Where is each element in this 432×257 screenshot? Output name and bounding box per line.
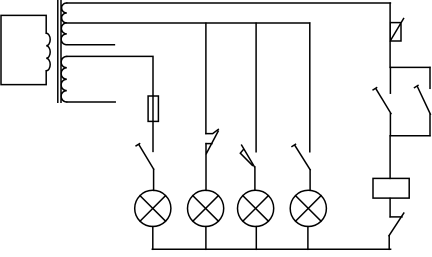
limit switch S3	[242, 145, 255, 167]
wire: lower rail of contact pair	[390, 135, 430, 137]
transformer T1 bottom secondary winding	[61, 56, 67, 102]
transformer T1 primary box	[1, 15, 46, 84]
wire: S2 to lamp E2	[205, 144, 207, 191]
contact K1b (right)	[429, 67, 431, 88]
transformer T1 core	[58, 1, 61, 103]
wire: lamp E4 to bottom rail	[307, 227, 309, 250]
switch S4	[295, 145, 310, 170]
wire: branch 2 drop	[205, 23, 207, 134]
wire: S4 to lamp E4	[309, 170, 311, 190]
wire: rail A (top)	[67, 2, 391, 4]
relay coil K1	[373, 178, 409, 198]
wire: lead D to fuse branch	[67, 56, 153, 96]
wire: S3 to lamp E3	[254, 167, 256, 190]
wire: upper rail of contact pair	[390, 66, 430, 68]
wire: lamp E1 to bottom rail	[152, 227, 154, 250]
wire: right feeder from rail A	[389, 3, 391, 67]
lamp E3	[238, 190, 274, 226]
wire: stub C (unused tap)	[67, 44, 115, 46]
wire: S5 to bottom rail	[388, 236, 390, 250]
transformer T1 primary winding bumps	[46, 33, 50, 71]
lamp E4	[290, 190, 326, 226]
contact K1a (left)	[389, 67, 391, 93]
contact S2 (changeover)	[206, 129, 218, 133]
wire: rail B (second)	[67, 22, 310, 24]
wire: stub E (unused tap)	[67, 101, 115, 103]
transformer T1 top secondary winding	[61, 3, 67, 45]
lamp E1	[135, 190, 171, 226]
wire: S1 to lamp E1	[153, 169, 155, 190]
wire: lamp E2 to bottom rail	[205, 227, 207, 250]
fuse-switch Q1 (box with diagonal)	[390, 23, 401, 41]
wire: branch 4 drop	[309, 23, 311, 152]
lamp E2	[188, 190, 224, 226]
wire: lamp E3 to bottom rail	[255, 227, 257, 250]
wire: coil to contact S5	[389, 198, 391, 217]
wire: bottom rail	[152, 248, 390, 250]
contact S5 (bottom right)	[390, 216, 402, 218]
wire: to relay coil	[389, 136, 391, 179]
fuse F1	[152, 96, 154, 151]
switch S1	[139, 145, 154, 170]
wire: branch 3 drop	[255, 23, 257, 152]
